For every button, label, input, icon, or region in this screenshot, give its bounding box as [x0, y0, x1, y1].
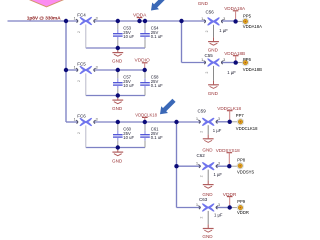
- svg-text:2: 2: [77, 80, 81, 82]
- wire left vertical rail: [65, 21, 67, 122]
- annotation blue arrow 2: [160, 99, 176, 115]
- label 1p8V @ 330mA: [27, 16, 61, 22]
- svg-text:C63: C63: [199, 197, 208, 202]
- svg-text:GND: GND: [208, 91, 219, 96]
- wire block1 ground rail: [86, 47, 145, 49]
- svg-text:10 uF: 10 uF: [123, 135, 134, 140]
- feedthrough capacitor C56: [201, 10, 228, 38]
- feedthrough capacitor C62: [196, 153, 222, 180]
- power tap VDDA: [133, 12, 147, 21]
- feedthrough capacitor C55: [201, 53, 236, 81]
- svg-text:VDDCLK18: VDDCLK18: [217, 106, 241, 111]
- svg-text:1 µF: 1 µF: [214, 212, 223, 217]
- svg-text:1 µF: 1 µF: [214, 172, 223, 177]
- svg-text:3: 3: [223, 58, 225, 62]
- svg-text:1 µF: 1 µF: [227, 70, 236, 75]
- svg-text:PP8: PP8: [237, 158, 246, 163]
- svg-text:3: 3: [223, 17, 225, 21]
- svg-text:C59: C59: [198, 109, 207, 114]
- svg-text:GND: GND: [112, 58, 123, 63]
- svg-text:2: 2: [77, 132, 81, 134]
- svg-text:2: 2: [200, 175, 204, 177]
- svg-text:1: 1: [196, 117, 198, 121]
- svg-text:1 µF: 1 µF: [213, 128, 222, 133]
- svg-text:PP6: PP6: [243, 57, 252, 62]
- svg-text:VDDCLK18: VDDCLK18: [135, 112, 157, 117]
- capacitor C61: [140, 124, 163, 148]
- svg-text:3: 3: [96, 117, 98, 121]
- svg-text:VDDA18A: VDDA18A: [243, 24, 262, 29]
- svg-text:GND: GND: [198, 1, 209, 6]
- svg-text:3: 3: [218, 117, 220, 121]
- wire VDDA rail top: [8, 20, 236, 22]
- svg-text:VDDA: VDDA: [133, 12, 147, 18]
- svg-text:PP5: PP5: [243, 14, 252, 19]
- wire C55 to VDDA18B: [221, 62, 236, 64]
- wire VDDCLK row: [66, 121, 230, 123]
- wire block2 ground rail: [86, 95, 145, 97]
- ground under C55: [208, 81, 219, 97]
- wire stub to PP7: [230, 121, 238, 123]
- svg-text:C56: C56: [206, 10, 215, 15]
- ferrite filter FC5: [74, 62, 98, 96]
- ground block2: [112, 96, 123, 111]
- svg-text:1: 1: [196, 203, 198, 207]
- annotation pink arrow tip: [26, 0, 68, 7]
- svg-text:VDDA18B: VDDA18B: [224, 51, 245, 56]
- ferrite filter FC6: [74, 114, 98, 148]
- test point PP9: [237, 199, 249, 215]
- test point PP6: [242, 57, 262, 72]
- svg-text:3: 3: [218, 203, 220, 207]
- svg-text:1 µF: 1 µF: [219, 28, 228, 33]
- svg-text:3: 3: [96, 16, 98, 20]
- svg-text:10 uF: 10 uF: [123, 34, 134, 39]
- capacitor C53: [113, 23, 134, 48]
- wire VDDIO row: [66, 69, 145, 71]
- svg-text:3: 3: [218, 162, 220, 166]
- svg-text:0.1 uF: 0.1 uF: [151, 34, 163, 39]
- svg-text:PP7: PP7: [236, 113, 245, 118]
- svg-text:10 uF: 10 uF: [123, 83, 134, 88]
- net label GND top: [198, 1, 209, 6]
- svg-text:1: 1: [74, 117, 76, 121]
- svg-text:GND: GND: [112, 158, 123, 163]
- wire branch VDDA to C55 row: [182, 21, 207, 63]
- svg-text:3: 3: [96, 65, 98, 69]
- svg-text:FC5: FC5: [77, 62, 86, 67]
- svg-text:VDDCLK18: VDDCLK18: [236, 126, 258, 131]
- ground under C62: [202, 180, 213, 196]
- svg-text:2: 2: [200, 217, 204, 219]
- wire stub to PP8: [229, 165, 237, 167]
- wire branch VDDCLK down: [176, 122, 178, 208]
- ground under C63: [202, 224, 213, 239]
- svg-text:2: 2: [200, 131, 204, 133]
- svg-text:GND: GND: [202, 234, 213, 239]
- svg-text:0.1 uF: 0.1 uF: [151, 83, 163, 88]
- power tap VDDA18B: [224, 51, 245, 63]
- power tap VDDCLK18 right: [217, 106, 241, 122]
- test point PP5: [242, 14, 262, 29]
- power tap VDDIO: [135, 58, 150, 70]
- test point PP8: [237, 158, 254, 175]
- svg-text:VDDR: VDDR: [237, 210, 249, 215]
- ground under C56: [208, 37, 219, 52]
- svg-text:VDDR: VDDR: [223, 192, 237, 198]
- svg-text:2: 2: [205, 72, 209, 74]
- svg-text:C55: C55: [205, 53, 214, 58]
- feedthrough capacitor C59: [196, 109, 222, 135]
- ground block1: [112, 48, 123, 63]
- wire C63 row: [177, 207, 230, 209]
- ferrite filter FC4: [74, 13, 98, 48]
- feedthrough capacitor C63: [196, 197, 223, 224]
- svg-text:2: 2: [77, 31, 81, 33]
- svg-text:GND: GND: [208, 47, 219, 52]
- svg-text:1: 1: [196, 162, 198, 166]
- wire block3 ground rail: [86, 147, 145, 149]
- wire C62 row: [177, 165, 230, 167]
- capacitor C54: [140, 23, 163, 48]
- svg-text:FC6: FC6: [77, 114, 86, 119]
- test point PP7: [236, 113, 258, 131]
- svg-text:VDDIO: VDDIO: [135, 58, 150, 64]
- wire stub to PP5: [236, 20, 244, 22]
- power tap VDDR: [223, 192, 237, 208]
- svg-text:GND: GND: [112, 106, 123, 111]
- svg-text:C62: C62: [197, 153, 206, 158]
- power tap VDDA18A: [224, 6, 246, 21]
- power tap VDDCLK18 left: [135, 112, 157, 122]
- svg-text:VDDA18A: VDDA18A: [224, 6, 246, 11]
- svg-text:VDDSYS: VDDSYS: [237, 169, 254, 174]
- ground block3: [112, 148, 123, 164]
- svg-text:GND: GND: [202, 148, 213, 153]
- wire stub to PP6: [236, 62, 244, 64]
- svg-text:VDDSYS18: VDDSYS18: [216, 148, 240, 153]
- svg-text:PP9: PP9: [237, 199, 246, 204]
- capacitor C60: [113, 124, 134, 148]
- svg-text:1: 1: [201, 58, 203, 62]
- ground under C59: [202, 135, 213, 153]
- svg-text:1: 1: [74, 65, 76, 69]
- svg-text:0.1 uF: 0.1 uF: [151, 135, 163, 140]
- svg-text:1: 1: [74, 16, 76, 20]
- svg-text:2: 2: [205, 30, 209, 32]
- svg-text:1: 1: [201, 17, 203, 21]
- svg-text:FC4: FC4: [77, 13, 86, 18]
- capacitor C58: [140, 72, 163, 96]
- annotation blue arrow 1: [151, 0, 168, 11]
- wire stub to PP9: [230, 207, 238, 209]
- power tap VDDSYS18: [216, 148, 240, 166]
- svg-text:VDDA18B: VDDA18B: [243, 67, 262, 72]
- capacitor C57: [113, 72, 134, 96]
